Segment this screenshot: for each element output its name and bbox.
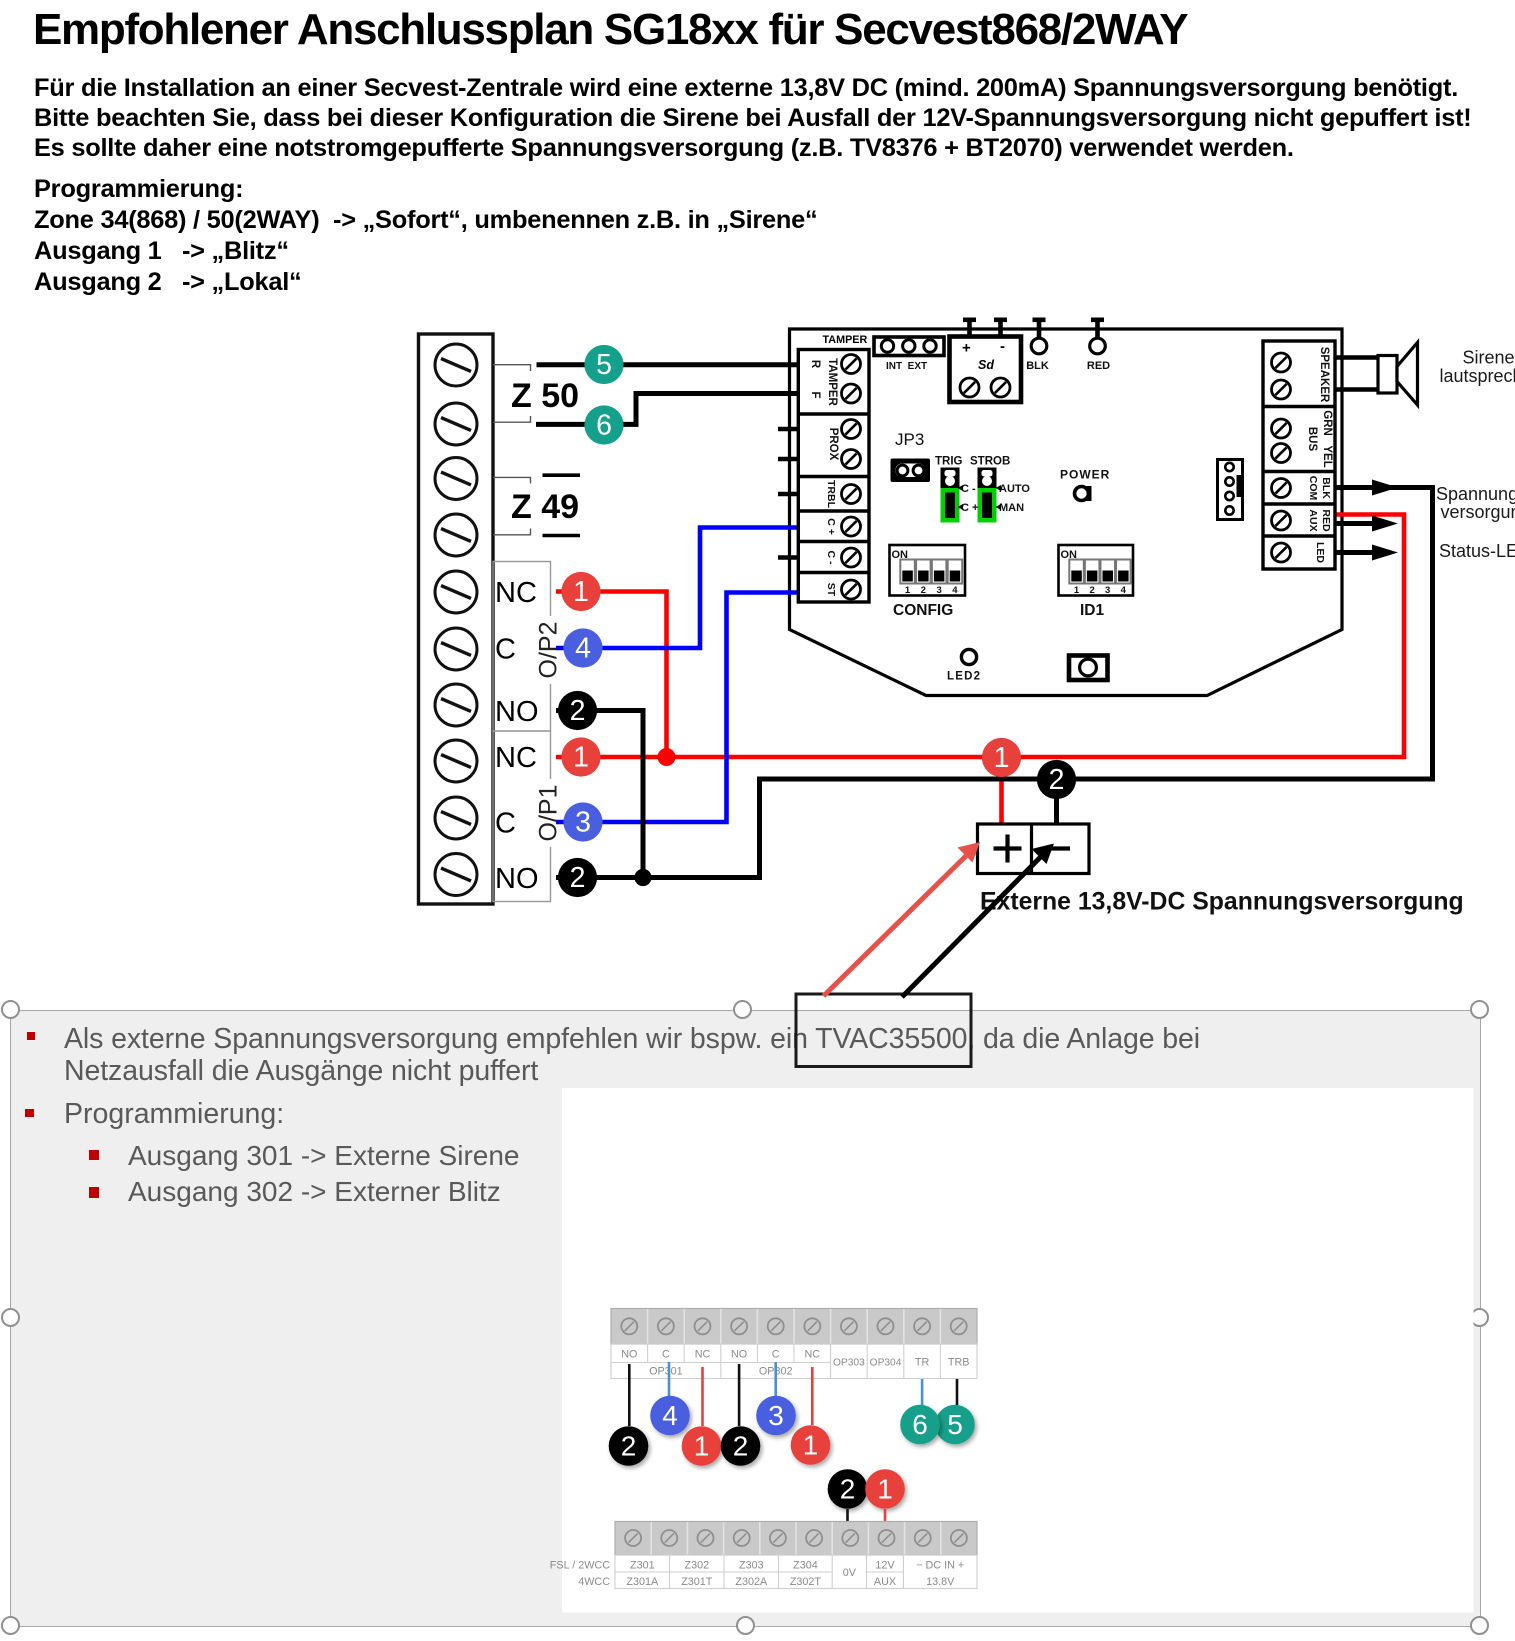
svg-text:2: 2 — [1049, 764, 1065, 796]
svg-text:NC: NC — [495, 577, 537, 609]
svg-text:C +: C + — [825, 518, 837, 535]
AUX RED arrow — [1335, 521, 1391, 526]
svg-text:5: 5 — [596, 349, 612, 381]
svg-text:Z301: Z301 — [630, 1560, 655, 1572]
svg-text:NO: NO — [495, 696, 539, 728]
svg-text:0V: 0V — [843, 1567, 857, 1579]
left strip rotated labels — [809, 358, 839, 597]
svg-text:versorgung: versorgung — [1441, 502, 1515, 522]
svg-text:Sd: Sd — [978, 358, 994, 372]
svg-text:SPEAKER: SPEAKER — [1318, 347, 1330, 403]
svg-text:4: 4 — [575, 633, 591, 665]
svg-text:6: 6 — [912, 1409, 928, 1440]
STROB jumper — [970, 456, 1010, 523]
wire red O/P2 NC to junction — [556, 592, 667, 758]
circle 3 — [563, 802, 602, 841]
svg-text:Z302A: Z302A — [735, 1576, 768, 1588]
O/P1 label box — [493, 731, 551, 902]
svg-text:TR: TR — [915, 1357, 930, 1369]
svg-text:2: 2 — [840, 1474, 856, 1505]
svg-text:NO: NO — [731, 1349, 747, 1361]
svg-text:+: + — [962, 340, 971, 357]
wire 5: Z50 top to TAMPER R — [537, 362, 800, 367]
svg-text:2: 2 — [733, 1431, 749, 1462]
svg-text:3: 3 — [575, 807, 591, 839]
COM BLK arrow — [1372, 480, 1398, 496]
circle 1 upper — [561, 572, 600, 611]
svg-text:5: 5 — [947, 1409, 963, 1440]
speaker wires — [1335, 355, 1378, 360]
svg-text:LED: LED — [1314, 542, 1326, 563]
svg-text:Externe 13,8V-DC Spannungsvers: Externe 13,8V-DC Spannungsversorgung — [980, 889, 1464, 916]
svg-text:1: 1 — [994, 742, 1010, 774]
svg-text:BLK: BLK — [1320, 477, 1332, 499]
svg-text:1: 1 — [905, 585, 911, 596]
svg-text:Z301A: Z301A — [626, 1576, 659, 1588]
circle 5 — [584, 345, 623, 384]
svg-text:Sirenen: Sirenen — [1463, 348, 1515, 368]
svg-text:Z 49: Z 49 — [511, 488, 579, 526]
svg-text:1: 1 — [877, 1474, 893, 1505]
zone bracket marks — [493, 365, 531, 535]
circle 2 upper — [558, 691, 597, 730]
svg-text:Z304: Z304 — [793, 1560, 818, 1572]
svg-text:3: 3 — [936, 585, 941, 596]
PCB sounder board outline — [790, 329, 1343, 696]
Z49 unconnected wire stubs — [543, 473, 581, 477]
svg-text:2: 2 — [570, 695, 586, 727]
inset circle 2 left — [609, 1426, 649, 1466]
inset circle 3 — [756, 1396, 796, 1436]
LED arrow — [1335, 550, 1391, 555]
circle 1 at + — [982, 738, 1021, 777]
svg-text:2: 2 — [621, 1431, 637, 1462]
svg-text:GRN YEL: GRN YEL — [1321, 410, 1333, 468]
svg-text:Spannungs-: Spannungs- — [1436, 484, 1515, 504]
inset circle 1 mid — [791, 1425, 831, 1465]
inset circle 4 — [650, 1396, 690, 1436]
svg-text:C: C — [495, 634, 516, 666]
JP3 jumper — [891, 459, 931, 483]
Sd sounder terminal box — [950, 318, 1022, 403]
svg-text:CONFIG: CONFIG — [893, 602, 953, 619]
svg-text:4: 4 — [662, 1400, 678, 1431]
inset panel screenshot background — [562, 1088, 1474, 1613]
terminal labels NC C NO — [495, 577, 539, 895]
TRIG jumper — [935, 456, 963, 523]
external PSU +/- terminal — [978, 824, 1090, 874]
svg-text:C -: C - — [825, 551, 837, 566]
inset circle 5 — [935, 1405, 975, 1445]
right terminal strip — [1263, 341, 1335, 569]
svg-text:6: 6 — [596, 410, 612, 442]
svg-text:C +: C + — [961, 502, 978, 514]
svg-text:4: 4 — [1121, 585, 1127, 596]
jumper option labels — [961, 483, 1030, 514]
inset bottom label table — [615, 1555, 977, 1589]
svg-text:Z302: Z302 — [684, 1560, 709, 1572]
svg-text:Z301T: Z301T — [681, 1576, 713, 1588]
junction red node — [658, 748, 676, 766]
TVAC35500 callout rectangle — [796, 994, 971, 1067]
svg-text:C -: C - — [961, 483, 976, 495]
svg-text:MAN: MAN — [999, 502, 1024, 514]
svg-text:ST: ST — [825, 583, 837, 597]
svg-text:NO: NO — [621, 1349, 637, 1361]
svg-text:BUS: BUS — [1306, 427, 1318, 452]
svg-text:R: R — [809, 360, 821, 369]
svg-text:2: 2 — [1089, 585, 1094, 596]
svg-text:2: 2 — [921, 585, 926, 596]
svg-text:1: 1 — [803, 1430, 819, 1461]
svg-text:3: 3 — [1105, 585, 1110, 596]
svg-text:INT EXT: INT EXT — [886, 361, 927, 372]
svg-text:OP303: OP303 — [833, 1358, 865, 1369]
speaker icon — [1378, 356, 1397, 394]
RED pin — [1087, 318, 1110, 373]
inset circle 2 bottom — [828, 1469, 868, 1509]
4-pin connector — [1218, 460, 1244, 520]
svg-text:TAMPER: TAMPER — [826, 358, 838, 406]
svg-text:1: 1 — [573, 576, 589, 608]
black arrow to - — [902, 844, 1054, 998]
CONFIG DIP switch — [890, 545, 966, 619]
svg-text:Z 50: Z 50 — [511, 377, 579, 415]
svg-text:Z302T: Z302T — [790, 1576, 822, 1588]
svg-text:C: C — [772, 1349, 780, 1361]
circle 2 lower — [558, 858, 597, 897]
wire blue O/P1 C to ST — [556, 593, 799, 823]
board tamper switch icon — [1069, 656, 1108, 681]
svg-text:RED: RED — [1320, 509, 1332, 532]
inset top terminal strip — [611, 1309, 977, 1345]
right strip rotated labels — [1306, 347, 1333, 564]
ID1 DIP switch — [1059, 545, 1134, 619]
junction black node — [634, 869, 651, 886]
svg-text:Z303: Z303 — [739, 1560, 764, 1572]
svg-text:TRIG: TRIG — [935, 456, 963, 468]
svg-text:NO: NO — [495, 863, 539, 895]
wire 6: Z50 bottom to TAMPER F — [536, 394, 799, 425]
svg-text:OP301: OP301 — [649, 1366, 683, 1378]
svg-text:13.8V: 13.8V — [926, 1576, 955, 1588]
svg-text:AUX: AUX — [1307, 509, 1319, 531]
wire red O/P1 NC long run to AUX RED — [556, 515, 1404, 758]
O/P2 label box — [493, 562, 551, 732]
svg-text:NC: NC — [804, 1349, 820, 1361]
svg-text:1: 1 — [694, 1431, 710, 1462]
svg-text:O/P1: O/P1 — [535, 785, 563, 842]
screws left block — [435, 344, 477, 896]
svg-text:OP304: OP304 — [870, 1358, 902, 1369]
svg-text:RED: RED — [1087, 360, 1110, 372]
inset wires bottom — [846, 1509, 849, 1522]
svg-text:POWER: POWER — [1060, 468, 1110, 482]
svg-text:PROX: PROX — [827, 428, 839, 461]
wire blue O/P2 C to C+ — [556, 528, 799, 649]
svg-text:FSL / 2WCC: FSL / 2WCC — [550, 1560, 610, 1572]
left PCB terminal strip — [798, 350, 869, 603]
inset wires top — [629, 1362, 957, 1426]
svg-text:NC: NC — [495, 742, 537, 774]
svg-text:1: 1 — [1074, 585, 1080, 596]
inset circle 6 — [900, 1405, 940, 1445]
INT EXT jumper header — [874, 337, 944, 372]
wire black O/P2 NO down to junction — [556, 711, 643, 878]
svg-text:4: 4 — [952, 585, 958, 596]
svg-text:TRBL: TRBL — [825, 480, 837, 509]
inset circle 1 left — [682, 1426, 722, 1466]
circle 4 — [563, 628, 602, 667]
svg-text:COM: COM — [1307, 476, 1319, 501]
svg-text:C: C — [495, 808, 516, 840]
svg-text:1: 1 — [573, 742, 589, 774]
svg-text:C: C — [662, 1349, 670, 1361]
svg-text:AUX: AUX — [874, 1576, 896, 1588]
svg-text:12V: 12V — [875, 1560, 895, 1572]
inset circle 1 bottom — [865, 1469, 905, 1509]
svg-text:-: - — [1000, 338, 1005, 355]
inset bottom terminal strip — [615, 1522, 977, 1556]
circle 2 at - — [1037, 760, 1076, 799]
svg-text:2: 2 — [570, 862, 586, 894]
left terminal block (12-way siren connector) — [419, 334, 494, 904]
svg-text:− DC IN +: − DC IN + — [916, 1560, 964, 1572]
svg-text:4WCC: 4WCC — [578, 1576, 610, 1588]
red arrow to + — [824, 842, 981, 996]
svg-text:TAMPER: TAMPER — [823, 334, 868, 346]
svg-text:TRB: TRB — [948, 1357, 970, 1369]
svg-text:ID1: ID1 — [1080, 602, 1105, 619]
svg-text:3: 3 — [768, 1400, 784, 1431]
svg-text:Status-LED: Status-LED — [1439, 541, 1515, 561]
svg-text:STROB: STROB — [970, 456, 1010, 468]
svg-text:NC: NC — [695, 1349, 711, 1361]
svg-text:JP3: JP3 — [895, 430, 924, 449]
left strip pin stubs — [778, 429, 798, 558]
BLK pin — [1026, 318, 1049, 373]
inset top label table — [611, 1344, 977, 1379]
svg-text:BLK: BLK — [1026, 360, 1049, 372]
svg-text:LED2: LED2 — [947, 671, 981, 683]
svg-text:AUTO: AUTO — [999, 483, 1030, 495]
circle 1 lower — [561, 737, 600, 776]
inset circle 2 mid — [721, 1426, 761, 1466]
svg-text:lautsprecher: lautsprecher — [1440, 366, 1515, 386]
wire black O/P1 NO long run to COM BLK — [556, 488, 1433, 878]
circle 6 — [584, 405, 623, 444]
svg-text:F: F — [809, 391, 821, 398]
wire black branch to - terminal — [1054, 779, 1059, 826]
wire red branch to + terminal — [999, 757, 1004, 826]
LED2 — [961, 649, 976, 664]
